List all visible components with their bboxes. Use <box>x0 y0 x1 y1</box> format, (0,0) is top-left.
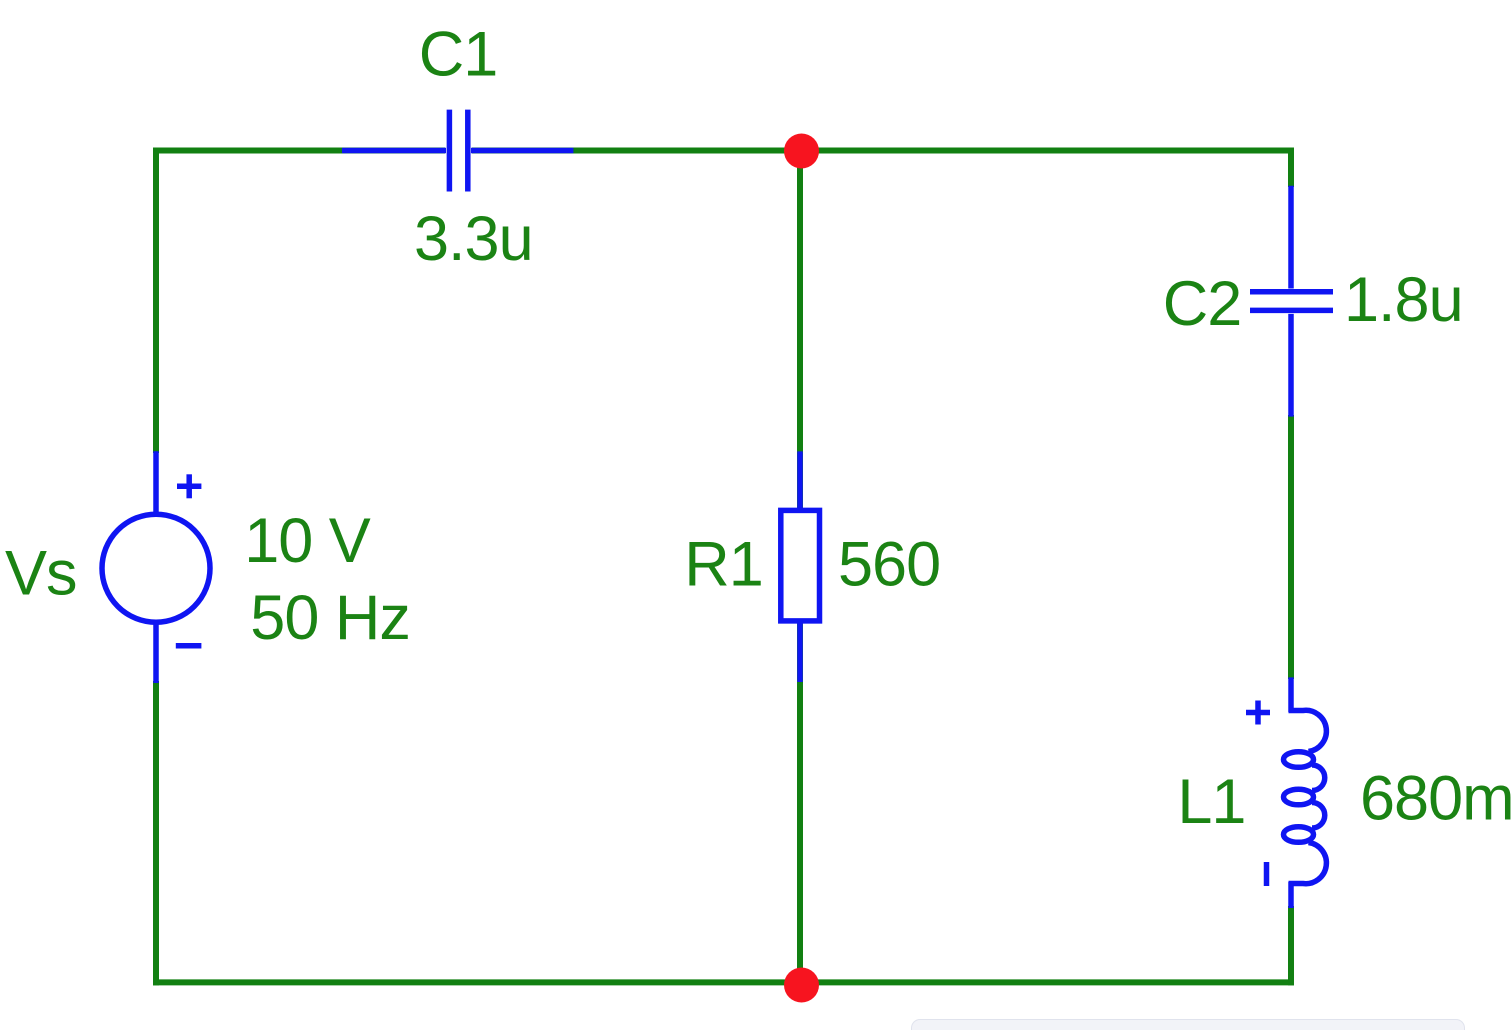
svg-text:560: 560 <box>838 530 940 600</box>
wire right middle segment <box>1288 415 1294 679</box>
wire top-right segment <box>472 148 1294 154</box>
capacitor C1 <box>342 110 573 192</box>
value 680m <box>1360 763 1512 833</box>
inductor L1 <box>1246 677 1326 908</box>
label R1 <box>684 530 763 600</box>
svg-text:50 Hz: 50 Hz <box>250 583 410 653</box>
capacitor C2 <box>1250 186 1333 417</box>
svg-text:C1: C1 <box>419 20 498 90</box>
wire middle branch <box>797 151 803 983</box>
svg-text:1.8u: 1.8u <box>1344 265 1463 335</box>
node junction bottom <box>784 968 819 1003</box>
svg-text:L1: L1 <box>1177 767 1245 837</box>
label L1 <box>1177 767 1245 837</box>
wire right lower segment <box>1288 906 1294 985</box>
value 560 <box>838 530 940 600</box>
value 1.8u <box>1344 265 1463 335</box>
wire right upper segment <box>1288 148 1294 188</box>
label Vs <box>5 539 77 609</box>
svg-text:R1: R1 <box>684 530 763 600</box>
svg-text:10 V: 10 V <box>244 506 371 576</box>
node junction top <box>784 134 819 169</box>
label C2 <box>1163 269 1242 339</box>
label C1 <box>419 20 498 90</box>
resistor R1 <box>781 451 820 682</box>
value 10 V <box>244 506 371 576</box>
svg-text:680m: 680m <box>1360 763 1512 833</box>
wire left lower segment <box>153 681 159 985</box>
wire top-left segment <box>153 148 445 154</box>
svg-text:3.3u: 3.3u <box>414 204 533 274</box>
wire bottom <box>153 979 1294 985</box>
voltage source Vs <box>102 451 210 683</box>
svg-text:Vs: Vs <box>5 539 77 609</box>
tooltip bar bottom <box>911 1019 1465 1030</box>
value 3.3u <box>414 204 533 274</box>
wire left upper segment <box>153 148 159 454</box>
value 50 Hz <box>250 583 410 653</box>
svg-text:C2: C2 <box>1163 269 1242 339</box>
